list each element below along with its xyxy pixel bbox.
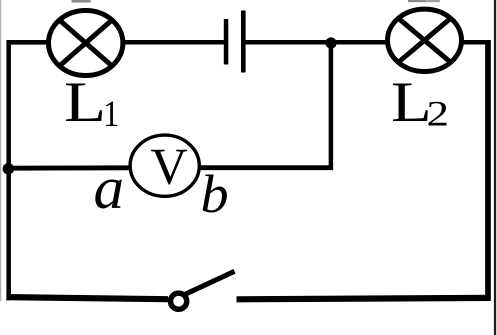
wire right vertical side [485,40,491,301]
switch (knife pivot and open blade) [171,271,235,309]
wire from junction to lamp L2 [331,40,388,45]
voltmeter V [130,135,199,196]
junction node (left, voltmeter branch) [3,163,15,175]
label b (voltmeter right terminal) [201,164,229,224]
wire bottom-left: corner to switch [6,297,168,299]
battery (cell) [224,11,246,73]
label L1 [64,71,119,135]
wire from left junction to voltmeter [9,165,132,170]
label a (voltmeter left terminal) [94,155,125,221]
wire left vertical side [6,40,11,300]
wire bottom-right: switch to corner [237,298,491,299]
wire from voltmeter to right riser [199,165,333,170]
wire from battery to junction [245,40,333,45]
junction node (top, battery / L2 / voltmeter branch) [325,37,336,48]
wire vertical riser from top junction down to voltmeter wire [329,43,334,170]
svg-text:a: a [94,155,125,221]
svg-text:1: 1 [103,93,119,134]
svg-text:b: b [201,164,229,224]
wire from lamp L1 to battery [123,40,226,45]
lamp L2 [388,9,462,71]
decorative scan artifacts (unlabeled): page edge lines and cropped text remnants [0,0,1,301]
wire top-left: corner to lamp L1 [7,40,49,45]
wire from lamp L2 to top-right corner [461,40,490,45]
svg-text:2: 2 [427,94,450,133]
lamp L1 [48,11,122,76]
label L2 [391,71,449,133]
svg-text:V: V [151,138,188,195]
svg-text:L: L [64,71,106,134]
